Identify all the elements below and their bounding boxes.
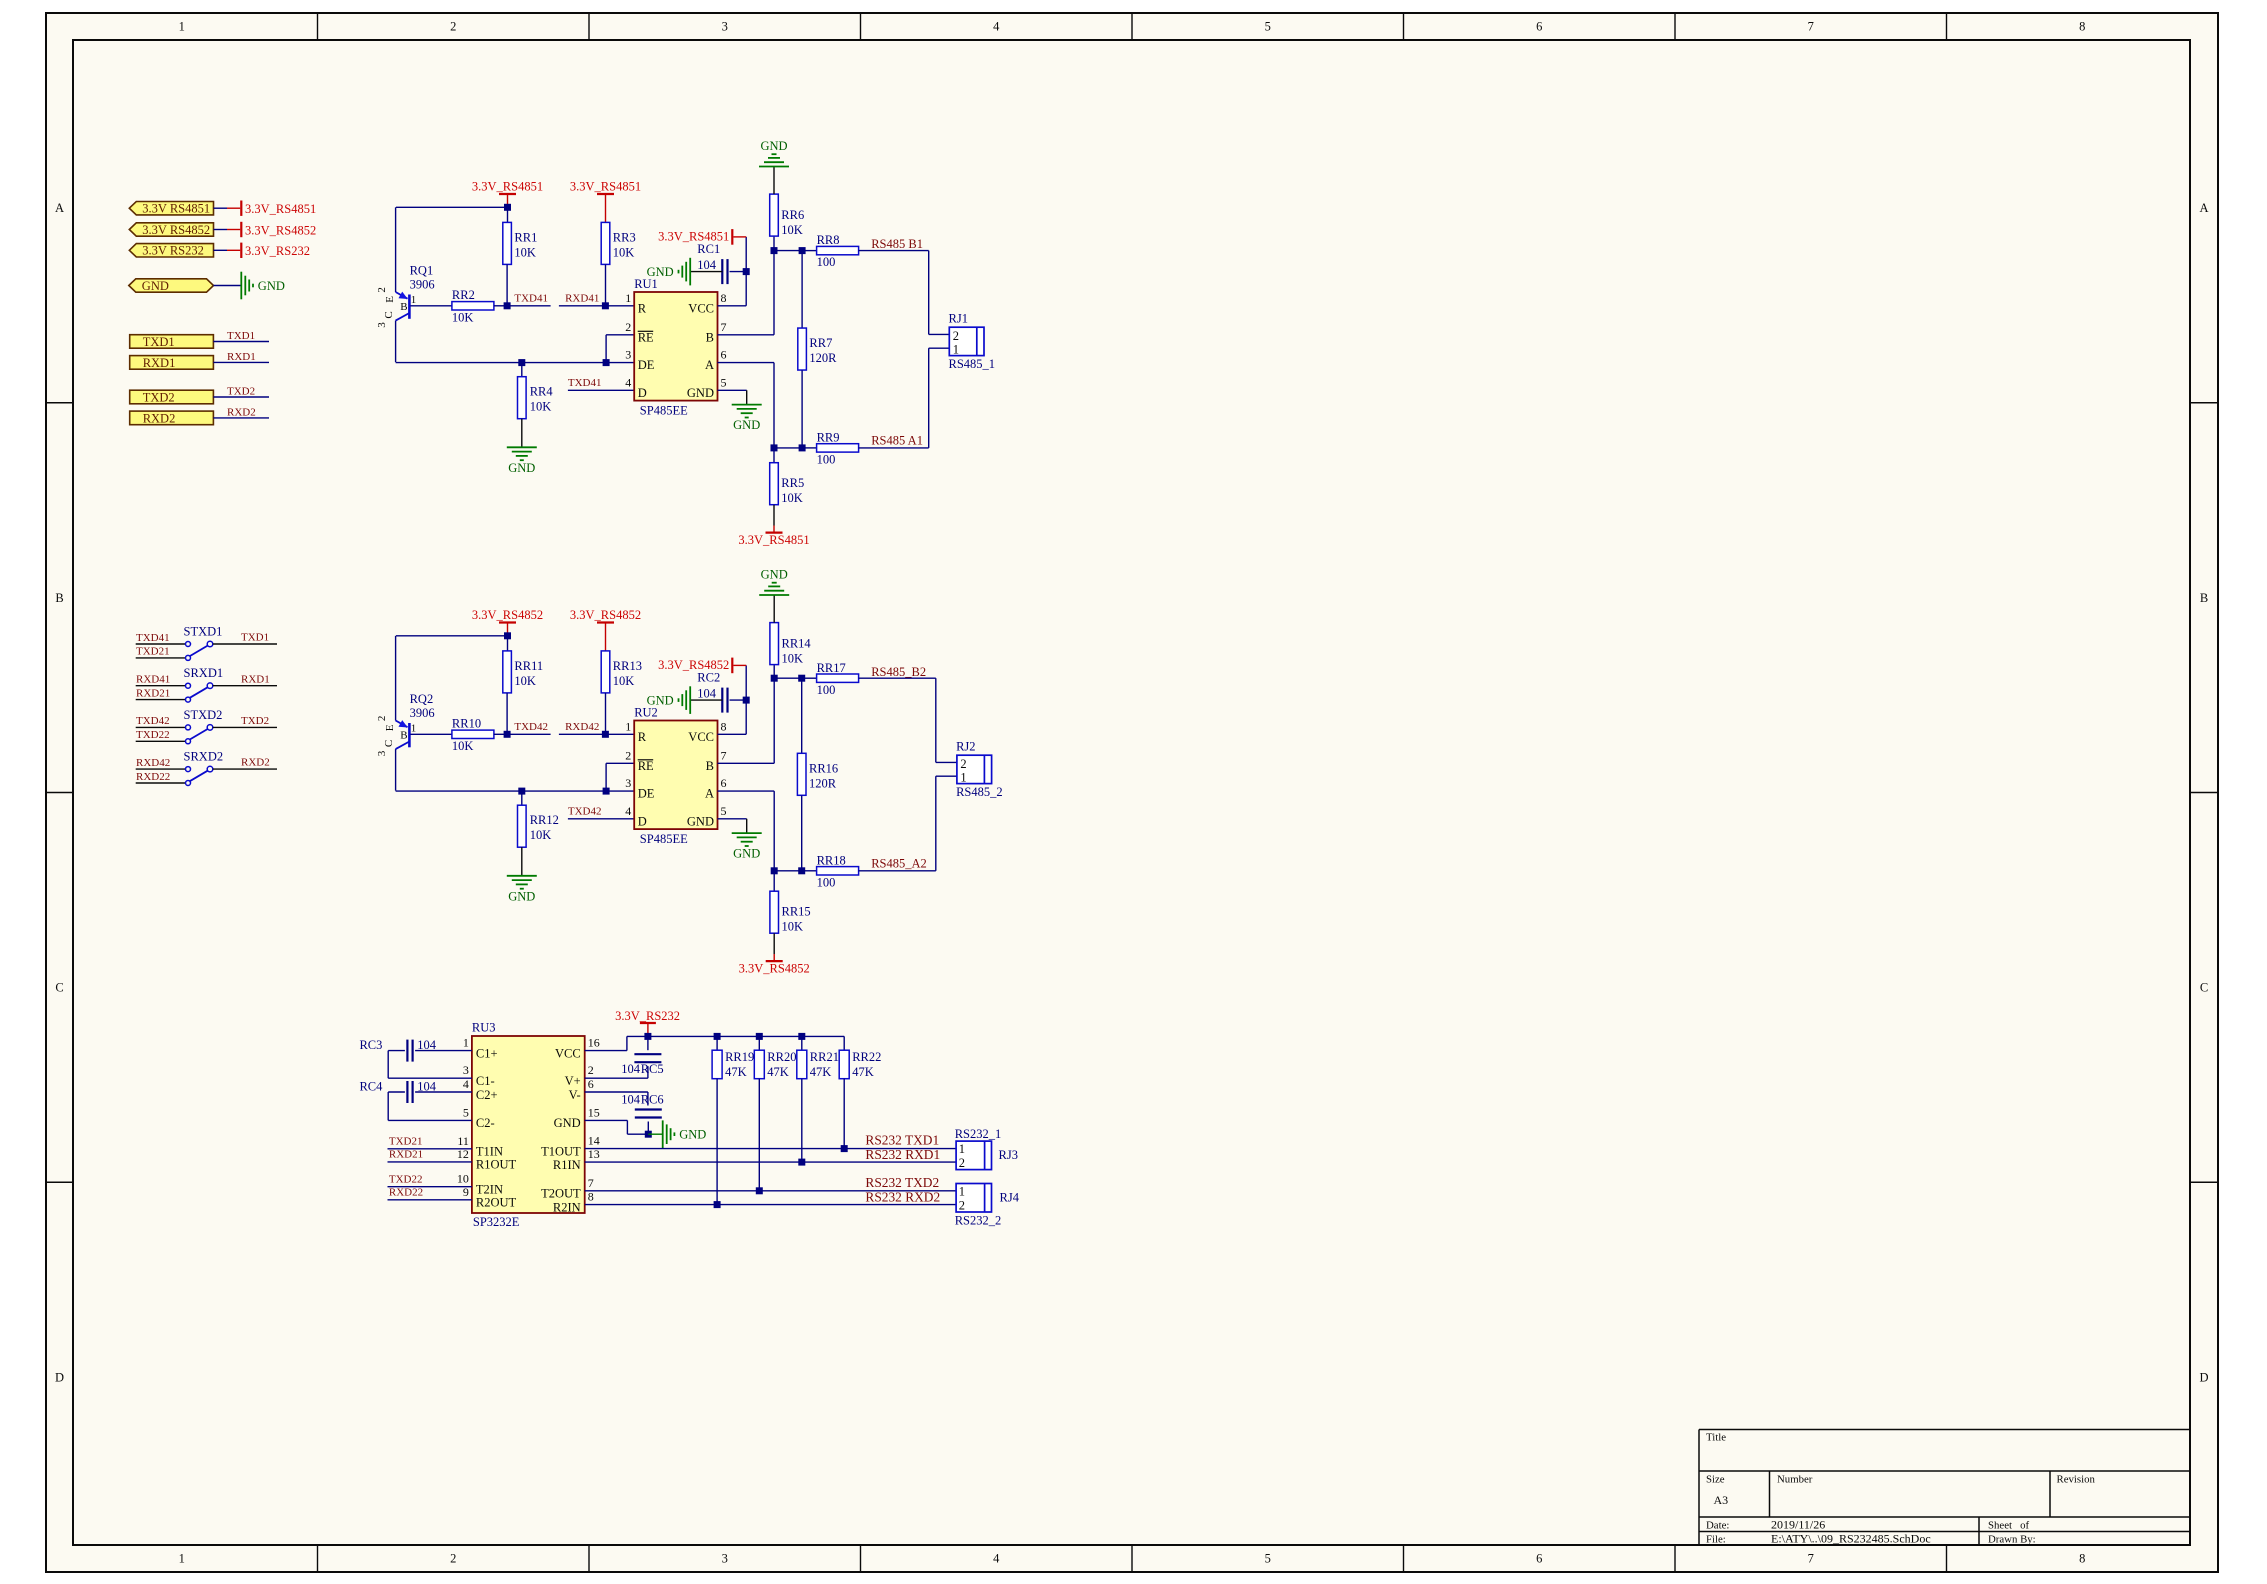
switch STXD2 xyxy=(186,725,191,730)
svg-text:TXD41: TXD41 xyxy=(514,293,548,305)
wire xyxy=(411,305,452,307)
svg-text:RS485_B2: RS485_B2 xyxy=(871,665,926,679)
svg-text:2: 2 xyxy=(588,1063,594,1077)
svg-text:3.3V RS232: 3.3V RS232 xyxy=(142,244,204,258)
svg-text:RR18: RR18 xyxy=(817,853,846,867)
svg-text:1: 1 xyxy=(463,1036,469,1050)
ground xyxy=(240,272,242,300)
switch SRXD1 xyxy=(186,683,191,688)
svg-text:RS485_2: RS485_2 xyxy=(956,785,1003,799)
svg-text:5: 5 xyxy=(1265,1552,1271,1566)
svg-text:RS485_A2: RS485_A2 xyxy=(871,856,927,870)
svg-text:C: C xyxy=(55,981,63,995)
wire xyxy=(507,623,509,636)
svg-text:6: 6 xyxy=(588,1077,594,1091)
svg-text:STXD2: STXD2 xyxy=(184,708,223,722)
svg-text:R2IN: R2IN xyxy=(553,1200,581,1214)
svg-text:RQ2: RQ2 xyxy=(410,692,434,706)
svg-text:RR6: RR6 xyxy=(781,208,804,222)
power 3.3V_RS4852 xyxy=(597,621,614,623)
svg-text:SP3232E: SP3232E xyxy=(473,1215,520,1229)
svg-text:Drawn By:: Drawn By: xyxy=(1988,1533,2036,1545)
op-amp RU2 SP485EE xyxy=(634,721,717,830)
svg-text:RR8: RR8 xyxy=(817,233,840,247)
wire xyxy=(718,790,775,792)
svg-text:1: 1 xyxy=(959,1185,965,1199)
resistor RR13 xyxy=(601,651,610,693)
resistor RR8 xyxy=(817,246,859,254)
svg-text:2: 2 xyxy=(625,748,631,762)
svg-text:3: 3 xyxy=(722,20,728,34)
svg-text:GND: GND xyxy=(258,279,285,293)
junction xyxy=(645,1131,652,1138)
wire xyxy=(214,285,242,287)
junction xyxy=(504,632,511,639)
svg-text:TXD2: TXD2 xyxy=(227,386,255,398)
ground xyxy=(759,166,789,168)
svg-text:RR16: RR16 xyxy=(809,761,838,775)
svg-text:RXD2: RXD2 xyxy=(227,406,256,418)
svg-text:RR19: RR19 xyxy=(725,1050,754,1064)
wire / net label RS232 TXD1 xyxy=(585,1148,956,1150)
wire xyxy=(606,762,634,764)
wire xyxy=(494,305,508,307)
svg-text:3.3V_RS4851: 3.3V_RS4851 xyxy=(472,180,543,194)
ground xyxy=(732,404,762,406)
resistor RR2 xyxy=(452,302,494,310)
svg-text:SP485EE: SP485EE xyxy=(640,832,688,846)
wire xyxy=(521,847,523,876)
svg-text:RJ3: RJ3 xyxy=(999,1148,1018,1162)
wire xyxy=(605,194,607,222)
svg-text:B: B xyxy=(400,730,407,742)
wire xyxy=(396,206,508,208)
wire / net label TXD21 xyxy=(388,1148,472,1150)
svg-text:14: 14 xyxy=(588,1134,600,1148)
svg-text:TXD42: TXD42 xyxy=(568,806,602,818)
junction xyxy=(756,1033,763,1040)
wire xyxy=(415,1050,472,1052)
svg-text:T1IN: T1IN xyxy=(476,1145,503,1159)
wire / net label RXD1 xyxy=(213,685,277,687)
svg-text:RR5: RR5 xyxy=(781,476,804,490)
svg-text:10K: 10K xyxy=(613,674,635,688)
svg-text:3.3V RS4852: 3.3V RS4852 xyxy=(142,223,210,237)
svg-text:File:: File: xyxy=(1706,1533,1726,1545)
svg-text:2: 2 xyxy=(376,287,388,293)
resistor RR16 xyxy=(797,753,806,795)
capacitor RC2 xyxy=(721,688,723,713)
junction xyxy=(771,867,778,874)
ground xyxy=(732,832,762,834)
wire xyxy=(214,207,228,209)
connector RJ3 xyxy=(956,1141,991,1170)
svg-text:RXD2: RXD2 xyxy=(241,757,270,769)
wire / net label TXD1 xyxy=(213,643,277,645)
svg-text:3.3V_RS4851: 3.3V_RS4851 xyxy=(738,533,809,547)
wire / net label RXD21 xyxy=(136,699,186,701)
svg-text:GND: GND xyxy=(508,461,535,475)
wire xyxy=(718,362,775,364)
svg-text:4: 4 xyxy=(993,1552,1000,1566)
svg-text:10K: 10K xyxy=(452,310,474,324)
svg-text:DE: DE xyxy=(638,787,655,801)
port 3.3V RS4852 xyxy=(129,223,213,236)
svg-text:TXD42: TXD42 xyxy=(514,721,548,733)
svg-text:Size: Size xyxy=(1706,1474,1725,1486)
power 3.3V_RS232 xyxy=(640,1022,656,1024)
svg-text:4: 4 xyxy=(625,375,631,389)
wire / net label RS485 A1 xyxy=(859,447,929,449)
svg-text:5: 5 xyxy=(721,804,727,818)
svg-text:RR9: RR9 xyxy=(817,431,840,445)
border column divider xyxy=(1403,13,1405,40)
svg-text:RS485_1: RS485_1 xyxy=(949,357,996,371)
svg-text:RS485 A1: RS485 A1 xyxy=(871,433,923,447)
svg-text:RXD1: RXD1 xyxy=(143,356,176,370)
wire xyxy=(802,677,817,679)
wire / net label RXD42 xyxy=(136,768,186,770)
wire xyxy=(802,447,817,449)
svg-text:8: 8 xyxy=(721,719,727,733)
junction xyxy=(504,302,511,309)
svg-text:VCC: VCC xyxy=(688,730,714,744)
svg-text:E:\ATY\..\09_RS232485.SchDoc: E:\ATY\..\09_RS232485.SchDoc xyxy=(1771,1531,1931,1545)
wire xyxy=(730,699,747,701)
wire xyxy=(507,194,509,207)
svg-text:104: 104 xyxy=(417,1080,437,1094)
svg-text:47K: 47K xyxy=(852,1065,874,1079)
svg-text:RR7: RR7 xyxy=(809,336,832,350)
wire xyxy=(718,334,775,336)
wire xyxy=(802,870,817,872)
wire / net label TXD42 xyxy=(136,726,186,728)
junction xyxy=(798,1159,805,1166)
ground xyxy=(689,686,691,714)
svg-text:E: E xyxy=(384,724,396,731)
svg-text:8: 8 xyxy=(588,1190,594,1204)
svg-text:RXD22: RXD22 xyxy=(136,771,170,783)
svg-text:B: B xyxy=(55,591,63,605)
ground xyxy=(689,258,691,286)
wire xyxy=(758,1036,760,1050)
power 3.3V_RS4851 xyxy=(731,229,733,245)
svg-text:7: 7 xyxy=(721,748,727,762)
svg-text:RC4: RC4 xyxy=(359,1080,383,1094)
svg-text:10K: 10K xyxy=(782,652,804,666)
svg-text:104: 104 xyxy=(417,1038,437,1052)
junction xyxy=(743,268,750,275)
wire xyxy=(690,271,722,273)
svg-text:VCC: VCC xyxy=(688,301,714,315)
svg-text:A: A xyxy=(705,787,714,801)
wire xyxy=(718,733,747,735)
svg-text:TXD22: TXD22 xyxy=(136,729,170,741)
svg-text:104: 104 xyxy=(697,258,717,272)
svg-text:6: 6 xyxy=(721,776,727,790)
svg-text:RR2: RR2 xyxy=(452,288,475,302)
svg-text:3.3V RS4851: 3.3V RS4851 xyxy=(142,202,210,216)
wire xyxy=(773,167,775,195)
svg-text:10: 10 xyxy=(457,1172,469,1186)
svg-text:D: D xyxy=(55,1370,64,1384)
svg-text:1: 1 xyxy=(625,719,631,733)
svg-text:6: 6 xyxy=(721,348,727,362)
svg-text:8: 8 xyxy=(2079,20,2085,34)
svg-text:GND: GND xyxy=(142,279,169,293)
svg-text:104: 104 xyxy=(697,687,717,701)
ground xyxy=(507,875,537,877)
svg-text:TXD1: TXD1 xyxy=(227,330,255,342)
junction xyxy=(743,697,750,704)
svg-text:RJ1: RJ1 xyxy=(949,312,968,326)
wire / net label RXD22 xyxy=(136,782,186,784)
junction xyxy=(756,1187,763,1194)
junction xyxy=(602,302,609,309)
wire xyxy=(801,251,803,328)
net label TXD41 xyxy=(568,389,634,391)
connector RJ4 xyxy=(956,1184,991,1213)
ground xyxy=(759,594,789,596)
junction xyxy=(504,731,511,738)
svg-text:GND: GND xyxy=(647,694,674,708)
svg-text:2: 2 xyxy=(959,1156,965,1170)
svg-text:RC2: RC2 xyxy=(697,671,720,685)
svg-text:RXD2: RXD2 xyxy=(143,411,176,425)
svg-text:RS232_1: RS232_1 xyxy=(955,1127,1002,1141)
wire / net label RS232 RXD2 xyxy=(585,1204,956,1206)
svg-text:SP485EE: SP485EE xyxy=(640,404,688,418)
svg-text:6: 6 xyxy=(1536,1552,1542,1566)
port RXD1 xyxy=(130,356,214,370)
wire xyxy=(605,264,607,305)
svg-text:V+: V+ xyxy=(565,1074,581,1088)
power 3.3V_RS4852 xyxy=(731,658,733,674)
svg-text:TXD21: TXD21 xyxy=(389,1136,423,1148)
resistor RR12 xyxy=(518,805,527,847)
svg-text:TXD2: TXD2 xyxy=(241,715,269,727)
wire xyxy=(718,305,747,307)
wire xyxy=(521,791,523,805)
svg-text:120R: 120R xyxy=(809,776,837,790)
svg-text:7: 7 xyxy=(721,320,727,334)
wire xyxy=(605,623,607,651)
port TXD2 xyxy=(130,390,214,404)
wire xyxy=(690,699,722,701)
wire xyxy=(585,1091,648,1093)
capacitor RC1 xyxy=(721,259,723,284)
svg-text:Title: Title xyxy=(1706,1432,1726,1444)
ground xyxy=(662,1120,664,1148)
svg-text:RR15: RR15 xyxy=(782,905,811,919)
svg-text:RR20: RR20 xyxy=(767,1050,796,1064)
wire xyxy=(411,733,452,735)
svg-text:RR14: RR14 xyxy=(782,637,812,651)
svg-text:RS232_2: RS232_2 xyxy=(955,1213,1002,1227)
svg-text:10K: 10K xyxy=(613,245,635,259)
net label TXD41 xyxy=(507,305,550,307)
svg-text:3.3V_RS232: 3.3V_RS232 xyxy=(245,244,310,258)
resistor RR7 xyxy=(798,328,807,370)
wire / net label RXD1 xyxy=(213,361,269,363)
svg-text:4: 4 xyxy=(993,20,1000,34)
title block xyxy=(1699,1429,2190,1431)
switch STXD1 xyxy=(186,642,191,647)
ground xyxy=(507,446,537,448)
svg-text:T2IN: T2IN xyxy=(476,1183,503,1197)
svg-text:104: 104 xyxy=(621,1093,641,1107)
svg-text:5: 5 xyxy=(463,1105,469,1119)
svg-text:RQ1: RQ1 xyxy=(410,264,434,278)
svg-text:TXD41: TXD41 xyxy=(136,632,170,644)
svg-text:7: 7 xyxy=(588,1176,594,1190)
svg-text:7: 7 xyxy=(1808,20,1814,34)
svg-text:V-: V- xyxy=(569,1088,581,1102)
svg-text:R1IN: R1IN xyxy=(553,1158,581,1172)
wire / net label RS485_B2 xyxy=(859,677,936,679)
svg-text:C1+: C1+ xyxy=(476,1046,498,1060)
junction xyxy=(799,247,806,254)
svg-text:100: 100 xyxy=(817,683,836,697)
switch SRXD2 xyxy=(186,767,191,772)
junction xyxy=(714,1033,721,1040)
wire xyxy=(773,237,775,251)
svg-text:GND: GND xyxy=(761,568,788,582)
svg-text:RC1: RC1 xyxy=(697,242,720,256)
svg-text:D: D xyxy=(638,814,647,828)
wire / net label TXD41 xyxy=(136,643,186,645)
svg-text:E: E xyxy=(384,296,396,303)
svg-text:5: 5 xyxy=(1265,20,1271,34)
port 3.3V RS232 xyxy=(129,244,213,257)
wire / net label RS232 TXD2 xyxy=(585,1190,956,1192)
port TXD1 xyxy=(130,335,214,349)
svg-text:RR17: RR17 xyxy=(817,661,846,675)
svg-text:3.3V_RS4852: 3.3V_RS4852 xyxy=(472,608,543,622)
border column divider xyxy=(1674,13,1676,40)
svg-text:R2OUT: R2OUT xyxy=(476,1196,517,1210)
svg-text:TXD1: TXD1 xyxy=(143,335,175,349)
svg-text:RXD42: RXD42 xyxy=(565,721,599,733)
svg-text:1: 1 xyxy=(959,1142,965,1156)
junction xyxy=(504,204,511,211)
svg-text:1: 1 xyxy=(179,1552,185,1566)
wire xyxy=(506,693,508,734)
resistor RR15 xyxy=(770,891,779,933)
junction xyxy=(518,788,525,795)
wire xyxy=(494,733,508,735)
junction xyxy=(771,444,778,451)
svg-text:2: 2 xyxy=(376,716,388,722)
svg-text:104: 104 xyxy=(621,1062,641,1076)
svg-text:10K: 10K xyxy=(530,400,552,414)
wire / net label RXD21 xyxy=(388,1161,472,1163)
svg-text:2: 2 xyxy=(450,20,456,34)
wire / net label RXD2 xyxy=(213,768,277,770)
wire / net label RXD41 xyxy=(136,685,186,687)
svg-text:4: 4 xyxy=(463,1077,469,1091)
svg-text:RXD41: RXD41 xyxy=(136,674,170,686)
wire xyxy=(774,447,802,449)
wire xyxy=(801,796,803,871)
svg-text:15: 15 xyxy=(588,1105,600,1119)
resistor RR10 xyxy=(452,730,494,738)
svg-text:DE: DE xyxy=(638,358,655,372)
svg-text:R: R xyxy=(638,730,647,744)
wire xyxy=(648,1133,662,1135)
svg-text:RXD22: RXD22 xyxy=(389,1187,423,1199)
svg-text:100: 100 xyxy=(817,875,836,889)
svg-text:TXD41: TXD41 xyxy=(568,377,602,389)
wire xyxy=(415,1091,472,1093)
wire xyxy=(773,871,775,891)
wire xyxy=(758,1079,760,1191)
wire xyxy=(843,1079,845,1149)
svg-text:RR11: RR11 xyxy=(514,659,543,673)
svg-text:2019/11/26: 2019/11/26 xyxy=(1771,1517,1825,1531)
svg-text:RU3: RU3 xyxy=(472,1021,496,1035)
svg-text:3: 3 xyxy=(463,1063,469,1077)
svg-text:10K: 10K xyxy=(782,920,804,934)
capacitor RC4 xyxy=(406,1081,408,1103)
svg-text:B: B xyxy=(400,301,407,313)
wire xyxy=(773,505,775,526)
svg-text:RS232 RXD1: RS232 RXD1 xyxy=(865,1147,940,1162)
svg-text:RS485 B1: RS485 B1 xyxy=(871,237,923,251)
wire / net label TXD21 xyxy=(136,657,186,659)
wire xyxy=(585,1119,628,1121)
svg-text:RXD1: RXD1 xyxy=(227,351,256,363)
svg-text:11: 11 xyxy=(457,1134,469,1148)
svg-text:Sheet of: Sheet of xyxy=(1988,1519,2029,1531)
svg-text:R: R xyxy=(638,301,647,315)
svg-text:TXD21: TXD21 xyxy=(136,646,170,658)
capacitor RC5 xyxy=(634,1053,661,1055)
connector RJ1 xyxy=(949,327,984,355)
svg-text:TXD2: TXD2 xyxy=(143,390,175,404)
wire xyxy=(647,1036,649,1050)
svg-text:1: 1 xyxy=(625,291,631,305)
net label TXD42 xyxy=(568,818,634,820)
junction xyxy=(518,359,525,366)
svg-text:T1OUT: T1OUT xyxy=(541,1144,581,1158)
svg-text:1: 1 xyxy=(953,343,959,357)
svg-text:A: A xyxy=(2199,201,2208,215)
wire xyxy=(801,1079,803,1162)
wire xyxy=(396,635,508,637)
wire xyxy=(801,370,803,448)
port GND xyxy=(129,279,214,292)
junction xyxy=(603,788,610,795)
transistor RQ2 xyxy=(395,636,397,721)
resistor RR18 xyxy=(817,867,859,875)
junction xyxy=(714,1201,721,1208)
svg-text:3.3V_RS4852: 3.3V_RS4852 xyxy=(570,608,641,622)
svg-text:Revision: Revision xyxy=(2057,1474,2096,1486)
wire xyxy=(716,1036,718,1050)
svg-text:RC3: RC3 xyxy=(359,1038,382,1052)
svg-text:GND: GND xyxy=(760,139,787,153)
border column divider xyxy=(860,13,862,40)
power 3.3V_RS4851 xyxy=(240,201,242,216)
svg-text:GND: GND xyxy=(733,847,760,861)
svg-text:RC5: RC5 xyxy=(641,1062,664,1076)
svg-text:RR4: RR4 xyxy=(530,385,554,399)
svg-text:C1-: C1- xyxy=(476,1074,495,1088)
svg-text:3: 3 xyxy=(625,348,631,362)
svg-text:3.3V_RS4851: 3.3V_RS4851 xyxy=(570,180,641,194)
resistor RR22 xyxy=(839,1050,849,1079)
